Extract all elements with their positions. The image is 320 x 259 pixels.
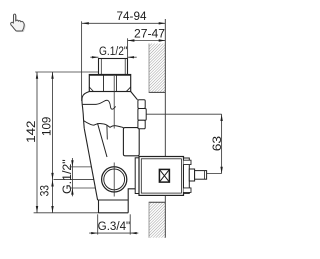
wall hole top edge [149, 91, 166, 93]
dim 63 top extension line [146, 113, 221, 115]
neck short vertical rib [106, 125, 108, 139]
dim 74-94 line [82, 22, 166, 24]
cartridge X square [159, 169, 169, 182]
dim 109 top arrow [51, 72, 53, 79]
side nut band middle [138, 109, 146, 121]
wall hatch top strip [149, 44, 165, 93]
cartridge X diagonals [159, 169, 169, 182]
G.1/2 inlet dim left arrow [92, 56, 99, 58]
collar upper wavy intersection line [83, 100, 116, 109]
dim 27-47 left arrow [128, 39, 135, 41]
dim 142 line [36, 72, 38, 213]
dim 142 top arrow [36, 72, 38, 79]
dim 33 top arrow [51, 180, 53, 187]
cartridge box left flange [135, 158, 139, 194]
dim 27-47 line [128, 40, 166, 42]
right flange clamp bottom [184, 188, 192, 193]
G.3/4 left arrow [91, 232, 98, 234]
body collar left edge [82, 92, 89, 129]
neck diagonal B [98, 123, 108, 157]
dim 27-47 left extension line [127, 38, 129, 58]
foot bottom line [99, 212, 129, 214]
G.1/2 inlet dim right tail [128, 56, 137, 58]
valve body fill [82, 92, 140, 213]
dim 63 line [221, 114, 223, 173]
G.1/2 side port bottom extension [70, 187, 97, 189]
svg-text:74-94: 74-94 [117, 11, 148, 23]
stem block [189, 169, 194, 181]
side nut band bottom [138, 120, 145, 129]
G.1/2 side port dim line [71, 158, 73, 196]
right flange clamp top [184, 160, 192, 164]
shoulder to nut diagonal [131, 92, 138, 100]
dim 74-94 left arrow [82, 22, 89, 24]
thread inner line right [124, 59, 126, 75]
foot left edge [98, 200, 100, 213]
dim 63 bottom extension line [207, 173, 222, 175]
G.3/4 left extension line [97, 214, 99, 234]
dim 109/33 shared line [52, 72, 54, 213]
svg-text:33: 33 [40, 185, 52, 196]
dim 33 bottom arrow [51, 206, 53, 213]
wall right surface line [164, 19, 166, 157]
dim 63 top arrow [220, 114, 222, 121]
collar bottom wavy line [84, 121, 124, 128]
svg-text:63: 63 [212, 136, 224, 151]
svg-text:G.1/2": G.1/2" [99, 46, 128, 58]
dim 109 bottom arrow [51, 173, 53, 180]
G.1/2 inlet dim right arrow [128, 56, 135, 58]
hex bottom left chamfer [89, 87, 93, 92]
right flange plate [184, 158, 190, 193]
hex section [89, 75, 130, 92]
G.1/2 side port top arrow [71, 160, 73, 167]
G.1/2 side port top extension [70, 166, 114, 168]
port crosshair vertical [113, 163, 115, 197]
svg-text:109: 109 [41, 117, 53, 136]
port outer circle [102, 167, 127, 192]
G.1/2 inlet dim left tail [90, 56, 98, 58]
dim 63 bottom arrow [220, 167, 222, 174]
hand cursor shadow [12, 15, 26, 32]
stem cylinder [195, 171, 207, 180]
svg-text:142: 142 [26, 120, 38, 142]
thread tailpiece [99, 59, 128, 75]
wall hole bottom edge [149, 201, 166, 203]
bottom reference extension line [34, 212, 99, 214]
dim 27-47 right arrow [159, 39, 166, 41]
G.3/4 dim line [89, 232, 138, 234]
cartridge box [139, 157, 184, 196]
foot right edge and bracket [128, 189, 136, 213]
stem cylinder end cap [204, 171, 206, 180]
dim 74-94 right arrow [159, 22, 166, 24]
port inner circle [104, 169, 125, 190]
top reference extension line [35, 71, 98, 73]
side nut band top [138, 100, 145, 109]
port centerline extension [54, 179, 137, 181]
cartridge neck block [123, 128, 139, 156]
G.3/4 right arrow [130, 232, 137, 234]
hex bottom right chamfer [126, 87, 130, 92]
dim 142 bottom arrow [36, 206, 38, 213]
hex flat line right [116, 75, 118, 92]
wall left surface line bottom [148, 202, 150, 237]
thread inner line left [100, 59, 102, 75]
neck diagonal A (left silhouette) [84, 128, 97, 200]
G.1/2 side port bottom arrow [71, 188, 73, 195]
dim 74-94 left extension line [81, 21, 83, 101]
cartridge box inner border [141, 159, 181, 193]
svg-text:27-47: 27-47 [134, 28, 165, 40]
G.3/4 right extension line [129, 214, 131, 234]
svg-text:G.3/4": G.3/4" [98, 221, 131, 233]
foot top line [98, 199, 129, 201]
hex flat line left [103, 75, 105, 92]
centerline [113, 76, 115, 129]
wall hatch bottom strip [149, 202, 165, 237]
hand cursor [11, 14, 25, 31]
wall left surface line top [148, 44, 150, 93]
hex top thick line [89, 74, 130, 76]
